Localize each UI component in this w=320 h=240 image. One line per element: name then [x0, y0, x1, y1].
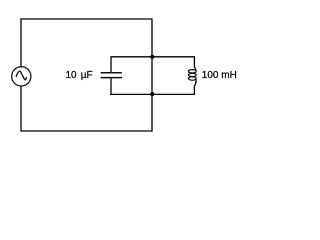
wire top: [21, 19, 152, 67]
svg-text:µF: µF: [81, 70, 93, 81]
capacitor C1 plates: [101, 72, 122, 74]
wire inductor branch bottom: [152, 79, 196, 94]
wire bottom: [21, 86, 152, 131]
junction node top: [150, 55, 154, 59]
svg-text:10: 10: [66, 70, 78, 81]
junction node bottom: [150, 92, 154, 96]
AC source V1: [12, 67, 31, 86]
inductor L1 coil: [188, 70, 196, 73]
wire capacitor branch top: [111, 57, 152, 72]
wire capacitor branch bottom: [111, 78, 152, 94]
wire middle right vertical: [151, 57, 153, 94]
svg-text:100 mH: 100 mH: [202, 70, 237, 81]
wire inductor branch top: [152, 57, 196, 70]
